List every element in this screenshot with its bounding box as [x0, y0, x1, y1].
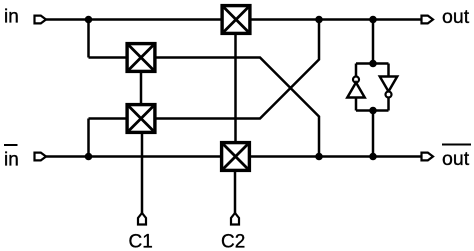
wire TG1 to TG4 — [234, 34, 237, 142]
transmission gate TG3 — [127, 105, 155, 133]
wire in rail left — [46, 18, 222, 21]
wire latch bottom bar — [356, 109, 389, 112]
transmission gate TG2 — [127, 44, 155, 72]
terminal out — [422, 16, 434, 24]
inverter U1 — [347, 64, 364, 111]
svg-text:out: out — [442, 6, 470, 28]
node junction inbar branch — [85, 153, 93, 161]
node junction outbar latch — [369, 153, 377, 161]
transmission gate TG1 — [222, 6, 250, 34]
wire crossover TG2 to outbar — [156, 58, 320, 157]
terminal C1 — [138, 213, 146, 225]
svg-text:in: in — [4, 7, 19, 28]
svg-text:C2: C2 — [221, 232, 245, 251]
node junction out latch — [369, 16, 377, 24]
wire in branch to TG2 — [89, 56, 127, 59]
wire latch bottom feed — [372, 111, 375, 157]
transmission gate TG4 — [222, 143, 250, 171]
wire latch top feed — [372, 20, 375, 64]
wire inbar branch to TG3 — [89, 117, 127, 120]
node junction outbar crossover — [315, 153, 323, 161]
node junction in branch — [85, 16, 93, 24]
wire inbar branch vertical — [87, 119, 90, 157]
terminal in — [35, 16, 47, 24]
wire TG2 to TG3 — [140, 72, 143, 104]
terminal inbar — [35, 153, 47, 161]
node junction latch bottom — [369, 107, 377, 115]
terminal C2 — [231, 213, 239, 225]
wire crossover TG3 to out — [156, 20, 320, 119]
wire C2 control — [234, 171, 237, 213]
wire outbar rail right — [250, 155, 422, 158]
inverter U2 — [380, 64, 397, 111]
node junction latch top — [369, 60, 377, 68]
terminal outbar — [422, 153, 434, 161]
wire out rail right — [251, 18, 423, 21]
wire in branch vertical — [87, 20, 90, 58]
wire inbar rail left — [46, 155, 221, 158]
wire latch top bar — [356, 62, 389, 65]
svg-text:out: out — [442, 148, 470, 170]
node junction out crossover — [315, 16, 323, 24]
wire C1 control — [141, 133, 144, 213]
node inbar label — [4, 145, 19, 171]
svg-text:C1: C1 — [129, 232, 153, 251]
svg-text:in: in — [4, 150, 19, 171]
node outbar label — [442, 145, 471, 171]
